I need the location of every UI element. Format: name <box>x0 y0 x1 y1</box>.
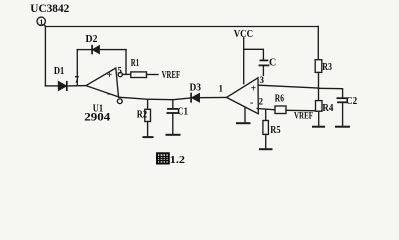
label VREF left <box>162 70 181 81</box>
label pin 3 <box>260 75 265 85</box>
ground of op-amp 2 <box>237 122 250 124</box>
label UC3842 <box>30 1 69 15</box>
capacitor C <box>260 60 269 75</box>
svg-text:-: - <box>250 98 253 109</box>
label R4 <box>322 103 333 114</box>
svg-text:2: 2 <box>259 97 264 107</box>
label D2 <box>86 34 98 45</box>
label pin 5 <box>117 65 122 75</box>
svg-text:R1: R1 <box>131 57 139 69</box>
resistor R6 <box>275 106 286 114</box>
svg-text:2904: 2904 <box>84 111 110 123</box>
label R5 <box>270 125 280 136</box>
label pin 2 <box>259 97 264 107</box>
label C <box>269 58 276 69</box>
ground stem of op-amp 2 <box>244 108 246 123</box>
resistor R3 <box>315 60 322 73</box>
resistor R5 with stem <box>263 109 269 148</box>
op-amp U2 half (pin1 out, pins 2,3 in) triangle <box>227 78 259 114</box>
wire R3 to junction and R4 <box>318 72 320 100</box>
label R2 <box>137 109 148 121</box>
wire R6 to R4 bottom (VREF net) <box>286 109 319 112</box>
label minus U1 <box>107 89 110 100</box>
label VCC <box>234 29 253 40</box>
pin 6 bubble of U1 <box>117 99 122 104</box>
op-amp U1 (2904) triangle, output pin 7 left, inputs 5/6 right <box>86 68 119 97</box>
svg-text:VREF: VREF <box>162 70 181 81</box>
resistor R2 with stem <box>145 99 151 136</box>
label D1 <box>54 66 64 77</box>
label plus U1 <box>107 70 113 81</box>
svg-text:D2: D2 <box>86 34 98 45</box>
ground of C2 <box>336 126 349 128</box>
svg-text:UC3842: UC3842 <box>30 1 69 15</box>
label C2 <box>346 96 357 107</box>
caption figure 1.2 <box>157 153 185 166</box>
capacitor C1 with stem <box>167 100 178 134</box>
svg-text:D3: D3 <box>190 83 202 94</box>
svg-text:+: + <box>107 70 113 81</box>
wire junction to C2 <box>318 88 342 97</box>
wire branch to capacitor C <box>244 49 264 59</box>
label R3 <box>322 62 332 73</box>
wire pin 2 to R6 <box>257 109 275 110</box>
wire feedback loop left vertical from pin7 node up <box>76 50 78 86</box>
diode D1 <box>59 82 67 90</box>
svg-text:VREF: VREF <box>294 111 313 121</box>
svg-text:+: + <box>251 84 257 95</box>
ground of R4 <box>313 126 324 128</box>
resistor R1 <box>131 72 147 78</box>
svg-text:1.2: 1.2 <box>170 155 185 166</box>
svg-text:R5: R5 <box>270 125 280 136</box>
svg-text:C2: C2 <box>346 96 357 107</box>
label plus U2 <box>251 84 257 95</box>
label R1 <box>131 57 139 69</box>
label 1 inside node circle <box>40 17 44 26</box>
label minus U2 <box>250 98 253 109</box>
ground of C1 <box>167 134 180 136</box>
pin 5 bubble of U1 <box>118 73 122 77</box>
label D3 <box>190 83 202 94</box>
svg-text:VCC: VCC <box>234 29 253 40</box>
wire R1 to VREF <box>147 74 159 76</box>
ground of R2 <box>144 136 153 138</box>
svg-text:-: - <box>107 89 110 100</box>
svg-text:3: 3 <box>260 75 265 85</box>
wire from node 1 down to D1 line <box>44 27 46 86</box>
label R6 <box>275 93 284 104</box>
svg-text:1: 1 <box>219 84 224 94</box>
label U1 <box>93 103 103 114</box>
svg-text:R6: R6 <box>275 93 284 104</box>
resistor R4 <box>316 101 323 112</box>
wire D1 line from corner to op-amp U1 output <box>45 85 86 87</box>
svg-text:7: 7 <box>75 75 80 85</box>
VCC stem down to op-amp top edge <box>243 38 245 84</box>
svg-text:R2: R2 <box>137 109 148 121</box>
label pin 7 <box>75 75 80 85</box>
node 1 circled terminal of UC3842 <box>37 17 45 26</box>
capacitor C2 <box>337 98 346 126</box>
label pin 1 <box>219 84 224 94</box>
svg-text:5: 5 <box>117 65 122 75</box>
wire R4 bottom stem to ground <box>318 111 320 126</box>
svg-text:1: 1 <box>40 17 44 26</box>
label 2904 <box>84 111 110 123</box>
wire D3 to op-amp 2 output pin 1 <box>199 96 226 98</box>
svg-text:C1: C1 <box>177 107 188 118</box>
diode D2 pointing left <box>92 46 99 54</box>
wire pin 3 to R3/R4 junction <box>258 85 318 88</box>
svg-text:D1: D1 <box>54 66 64 77</box>
wire pin6 rail to D3 <box>119 97 191 100</box>
ground of R5 <box>260 148 272 150</box>
svg-text:C: C <box>269 58 276 69</box>
svg-text:R4: R4 <box>322 103 333 114</box>
label VREF right <box>294 111 313 121</box>
label C1 <box>177 107 188 118</box>
wire right vertical from top rail to R3 <box>317 27 319 60</box>
svg-text:R3: R3 <box>322 62 332 73</box>
wire feedback loop top with D2 <box>77 49 126 51</box>
wire feedback right vertical down to pin 5 node <box>125 50 127 75</box>
diode D3 pointing left <box>191 94 199 102</box>
wire pin5 to R1 <box>122 73 130 75</box>
wire top rail from node 1 to right vertical <box>45 26 318 28</box>
